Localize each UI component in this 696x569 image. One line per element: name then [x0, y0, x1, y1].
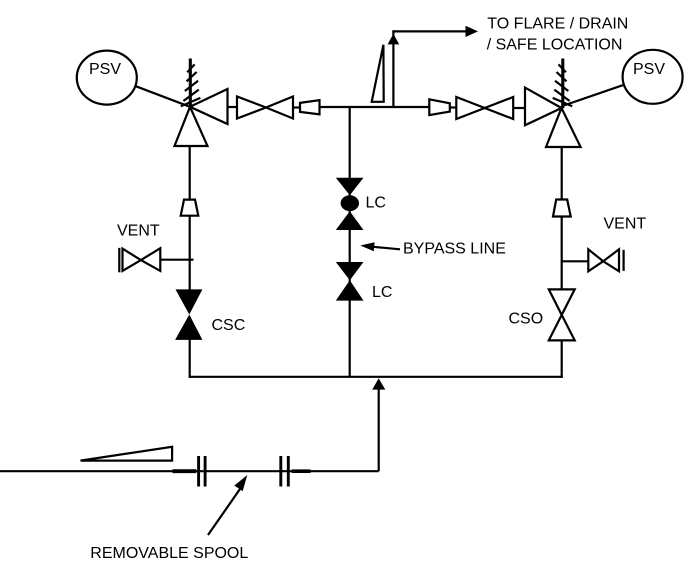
- svg-text:/ SAFE LOCATION: / SAFE LOCATION: [487, 36, 623, 53]
- svg-text:CSO: CSO: [509, 310, 544, 327]
- svg-text:PSV: PSV: [89, 61, 121, 78]
- svg-text:REMOVABLE SPOOL: REMOVABLE SPOOL: [90, 545, 248, 562]
- svg-text:BYPASS LINE: BYPASS LINE: [403, 241, 506, 258]
- svg-text:CSC: CSC: [212, 317, 246, 334]
- svg-text:PSV: PSV: [633, 61, 665, 78]
- svg-text:TO FLARE / DRAIN: TO FLARE / DRAIN: [487, 16, 628, 33]
- svg-text:VENT: VENT: [117, 223, 160, 240]
- svg-text:LC: LC: [372, 284, 392, 301]
- svg-text:VENT: VENT: [604, 216, 647, 233]
- svg-text:LC: LC: [366, 195, 386, 212]
